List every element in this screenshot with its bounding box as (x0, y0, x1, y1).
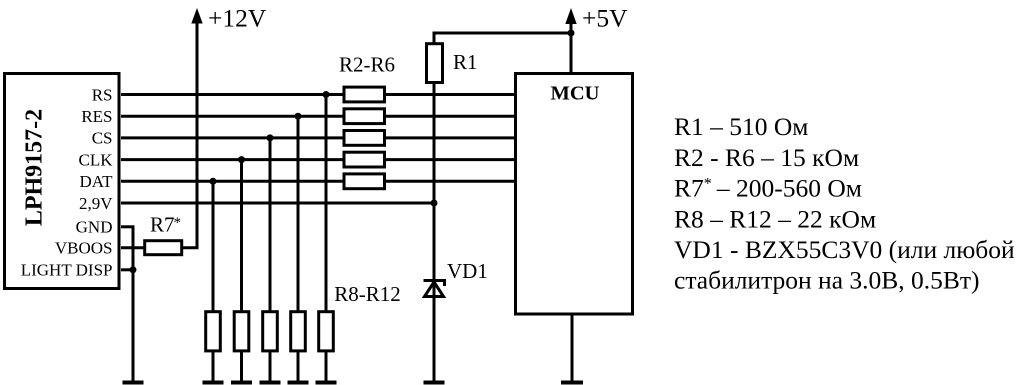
node CLK junction (238, 156, 245, 163)
zener diode VD1 triangle (425, 282, 444, 297)
svg-text:+5V: +5V (582, 4, 628, 33)
svg-text:2,9V: 2,9V (79, 194, 113, 213)
power +5V arrow (570, 16, 573, 74)
resistor R12 (319, 312, 334, 351)
node DAT junction (210, 178, 217, 185)
wire DAT line (121, 180, 516, 183)
node CS junction (267, 134, 274, 141)
svg-text:R2 - R6 – 15 кОм: R2 - R6 – 15 кОм (674, 143, 859, 172)
node 2,9V junction (431, 200, 438, 207)
node RES junction (295, 113, 302, 120)
resistor R1 (427, 44, 443, 83)
resistor R5 (344, 152, 385, 167)
wire 2,9V line (121, 202, 434, 205)
wire R7 to +12V (182, 246, 199, 249)
wire CS drop (269, 138, 272, 313)
svg-text:R1: R1 (453, 50, 478, 74)
wire GND down (132, 227, 135, 381)
svg-text:CS: CS (92, 129, 113, 148)
MCU box U2 (516, 74, 633, 315)
wire R1 bottom to 2,9V node (433, 82, 436, 203)
power +12V arrow (196, 18, 199, 249)
ground bar R9 (231, 381, 252, 385)
svg-text:LPH9157-2: LPH9157-2 (22, 109, 48, 226)
wire RES drop (297, 116, 300, 313)
svg-text:R2-R6: R2-R6 (339, 53, 395, 77)
wire GND stub (121, 225, 135, 228)
svg-text:VD1: VD1 (447, 259, 488, 283)
wire R10 to ground (269, 351, 272, 381)
svg-text:*: * (174, 215, 182, 231)
resistor R2 (344, 87, 385, 102)
resistor R8 (206, 312, 221, 351)
svg-text:R7: R7 (150, 213, 175, 237)
node RS junction (323, 91, 330, 98)
ground bar R8 (203, 381, 224, 385)
svg-text:VD1 - BZX55C3V0 (или любой: VD1 - BZX55C3V0 (или любой (674, 235, 1015, 264)
wire CLK drop (240, 160, 243, 313)
wire MCU ground pin (571, 314, 574, 381)
ground bar R11 (288, 381, 309, 385)
svg-text:R1 – 510 Ом: R1 – 510 Ом (674, 112, 808, 141)
zener diode VD1 wire (433, 203, 436, 381)
wire R11 to ground (297, 351, 300, 381)
svg-text:стабилитрон на 3.0В, 0.5Вт): стабилитрон на 3.0В, 0.5Вт) (674, 266, 980, 295)
display module LPH9157-2 box (5, 74, 120, 289)
wire RES line (121, 115, 516, 118)
node +5V junction (568, 30, 575, 37)
node GND/LIGHT junction (130, 266, 137, 273)
svg-text:+12V: +12V (208, 4, 267, 33)
resistor R10 (263, 312, 278, 351)
svg-text:VBOOS: VBOOS (55, 239, 113, 258)
resistor R6 (344, 174, 385, 189)
wire R1 top (434, 33, 571, 44)
wire CS line (121, 136, 516, 139)
ground bar left (123, 381, 144, 385)
svg-text:CLK: CLK (79, 150, 114, 169)
svg-text:LIGHT DISP: LIGHT DISP (21, 261, 113, 280)
resistor R11 (291, 312, 306, 351)
svg-text:RS: RS (92, 85, 113, 104)
resistor R3 (344, 109, 385, 124)
wire RS line (121, 93, 516, 96)
svg-text:GND: GND (76, 218, 113, 237)
svg-text:DAT: DAT (79, 172, 113, 191)
resistor R4 (344, 131, 385, 146)
wire R9 to ground (240, 351, 243, 381)
ground bar R12 (316, 381, 337, 385)
wire LIGHT DISP stub (121, 268, 135, 271)
wire CLK line (121, 158, 516, 161)
resistor R7 (145, 241, 182, 255)
ground bar R10 (260, 381, 281, 385)
zener diode VD1 cathode bar (424, 281, 445, 287)
ground bar MCU (561, 381, 583, 385)
svg-text:R7* – 200-560 Ом: R7* – 200-560 Ом (674, 174, 862, 203)
svg-text:R8-R12: R8-R12 (334, 282, 401, 306)
ground bar VD1 (424, 381, 445, 385)
svg-text:MCU: MCU (551, 82, 600, 104)
wire DAT drop (212, 181, 215, 313)
wire RS drop (325, 95, 328, 314)
wire VBOOS to R7 (121, 246, 146, 249)
resistor R9 (234, 312, 249, 351)
svg-text:R8 – R12 – 22 кОм: R8 – R12 – 22 кОм (674, 204, 876, 233)
wire R12 to ground (325, 351, 328, 381)
wire R8 to ground (212, 351, 215, 381)
svg-text:RES: RES (81, 107, 112, 126)
